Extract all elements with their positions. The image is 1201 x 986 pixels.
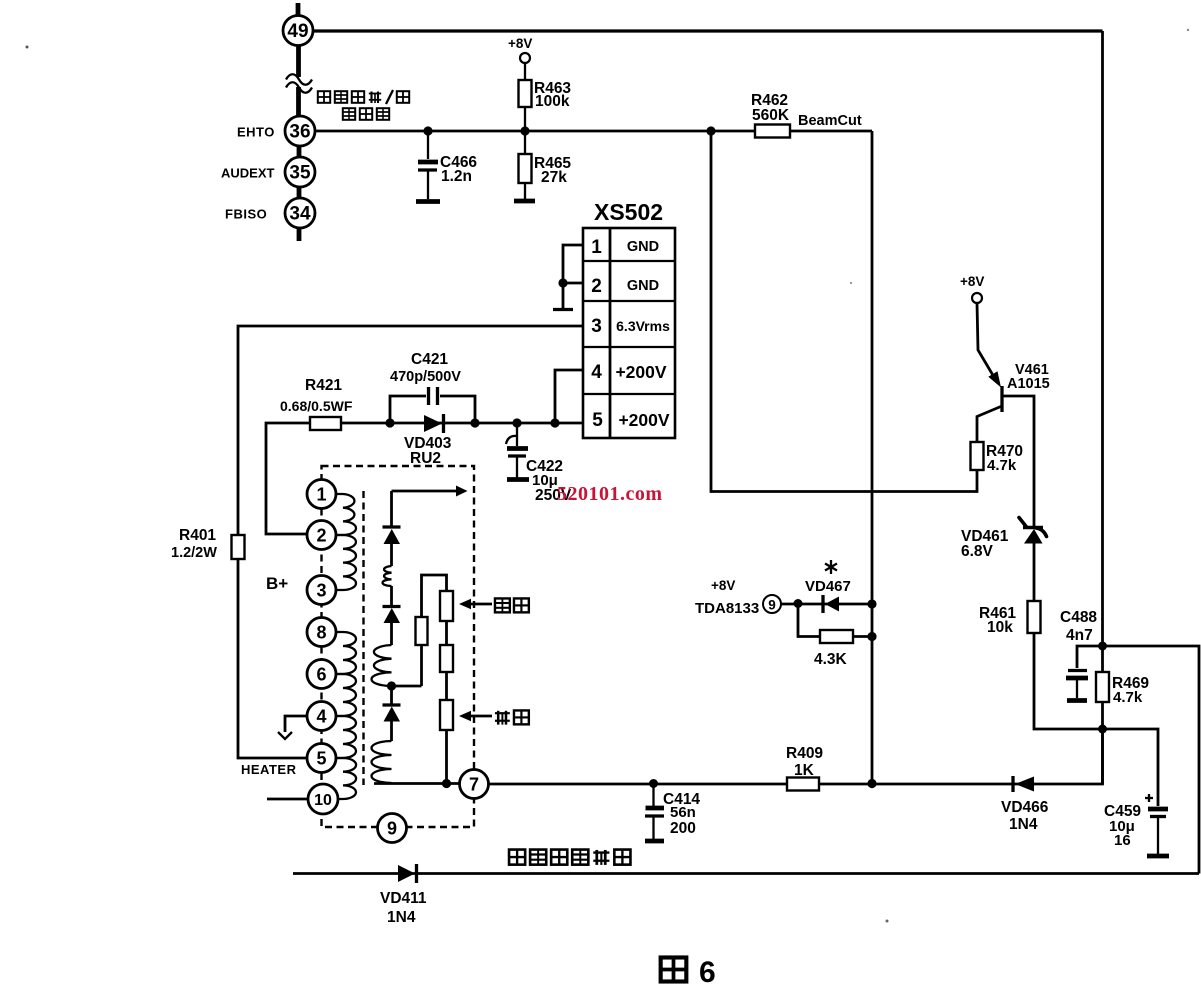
svg-text:XS502: XS502 — [594, 199, 663, 225]
svg-text:VD466: VD466 — [1001, 799, 1049, 816]
svg-text:6.8V: 6.8V — [961, 543, 994, 560]
svg-text:1N4: 1N4 — [387, 909, 416, 926]
svg-text:FBISO: FBISO — [225, 207, 267, 222]
svg-text:5: 5 — [592, 410, 603, 431]
svg-text:EHTO: EHTO — [237, 125, 275, 140]
svg-text:10k: 10k — [987, 619, 1013, 636]
svg-text:B+: B+ — [266, 574, 288, 593]
svg-text:6.3Vrms: 6.3Vrms — [616, 318, 670, 334]
svg-text:HEATER: HEATER — [241, 762, 297, 777]
svg-text:3: 3 — [316, 581, 326, 601]
svg-text:100k: 100k — [535, 93, 570, 110]
svg-text:1: 1 — [591, 237, 602, 258]
svg-text:35: 35 — [289, 163, 311, 184]
svg-text:36: 36 — [289, 122, 310, 143]
svg-text:3: 3 — [591, 316, 602, 337]
svg-text:560K: 560K — [752, 107, 790, 124]
svg-text:1: 1 — [316, 485, 326, 505]
svg-text:BeamCut: BeamCut — [798, 113, 862, 129]
svg-text:R401: R401 — [179, 527, 216, 544]
svg-text:1K: 1K — [794, 762, 815, 779]
svg-text:27k: 27k — [541, 169, 567, 186]
svg-text:A1015: A1015 — [1007, 376, 1050, 392]
svg-text:2: 2 — [591, 276, 602, 297]
svg-text:9: 9 — [768, 598, 776, 613]
svg-text:R409: R409 — [786, 745, 823, 762]
svg-text:4.7k: 4.7k — [987, 457, 1017, 474]
svg-text:4: 4 — [316, 707, 326, 727]
svg-text:6: 6 — [699, 956, 716, 986]
svg-text:1.2n: 1.2n — [441, 168, 472, 185]
svg-text:6: 6 — [316, 665, 326, 685]
svg-text:TDA8133: TDA8133 — [695, 600, 759, 617]
svg-text:56n: 56n — [670, 804, 696, 821]
svg-text:7: 7 — [469, 775, 479, 795]
svg-text:9: 9 — [387, 819, 397, 839]
svg-text:1N4: 1N4 — [1009, 816, 1038, 833]
svg-text:4: 4 — [591, 362, 602, 383]
svg-text:+8V: +8V — [508, 36, 532, 51]
svg-text:VD467: VD467 — [805, 578, 851, 595]
svg-text:GND: GND — [627, 239, 659, 255]
svg-text:+200V: +200V — [618, 410, 669, 430]
svg-text:34: 34 — [289, 204, 311, 225]
svg-text:GND: GND — [627, 278, 659, 294]
svg-text:+8V: +8V — [960, 274, 984, 289]
svg-text:AUDEXT: AUDEXT — [221, 166, 275, 181]
svg-text:49: 49 — [287, 21, 308, 42]
svg-text:8: 8 — [316, 623, 326, 643]
svg-text:R421: R421 — [305, 377, 342, 394]
svg-text:4.7k: 4.7k — [1113, 689, 1143, 706]
svg-text:0.68/0.5WF: 0.68/0.5WF — [280, 398, 353, 414]
svg-text:470p/500V: 470p/500V — [390, 369, 461, 385]
svg-text:520101.com: 520101.com — [557, 483, 663, 505]
svg-text:+200V: +200V — [615, 362, 666, 382]
svg-text:16: 16 — [1114, 832, 1131, 849]
svg-text:4.3K: 4.3K — [814, 651, 848, 668]
svg-text:2: 2 — [316, 526, 326, 546]
svg-text:RU2: RU2 — [410, 450, 441, 467]
svg-text:C421: C421 — [411, 351, 448, 368]
svg-text:200: 200 — [670, 820, 696, 837]
svg-text:5: 5 — [316, 749, 326, 769]
svg-text:+8V: +8V — [711, 578, 735, 593]
svg-text:4n7: 4n7 — [1066, 627, 1093, 644]
svg-text:1.2/2W: 1.2/2W — [171, 545, 217, 561]
svg-text:VD411: VD411 — [380, 890, 427, 907]
svg-text:10: 10 — [314, 792, 332, 809]
svg-text:C488: C488 — [1060, 609, 1097, 626]
